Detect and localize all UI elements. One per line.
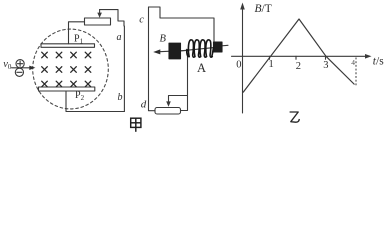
- solenoid winding A: [187, 40, 214, 57]
- svg-text:c: c: [139, 15, 144, 26]
- wire bottom to P2: [66, 91, 124, 112]
- svg-text:B/T: B/T: [255, 3, 272, 15]
- rheostat wiper arrow (middle): [166, 101, 171, 106]
- svg-text:B: B: [160, 34, 167, 45]
- negative charge symbol: [15, 68, 23, 76]
- svg-text:0: 0: [236, 60, 241, 71]
- svg-text:2: 2: [296, 61, 301, 72]
- rheostat wiper arrow: [97, 10, 102, 18]
- graph axes: [232, 3, 372, 114]
- field crosses grid: [42, 52, 91, 87]
- svg-text:d: d: [141, 98, 147, 110]
- rheostat R2 body: [155, 108, 181, 115]
- tick t=3: [325, 56, 327, 59]
- solenoid right pole piece: [214, 42, 223, 52]
- wire top with jog: [149, 7, 215, 43]
- svg-text:b: b: [118, 92, 123, 103]
- svg-text:4: 4: [351, 58, 355, 67]
- dashed drop line at t=4: [355, 58, 357, 87]
- middle circuit wires: [149, 7, 229, 114]
- svg-text:1: 1: [269, 59, 274, 70]
- tick t=1: [269, 56, 271, 59]
- wire wiper branch: [169, 96, 188, 102]
- svg-text:t/s: t/s: [373, 56, 384, 68]
- dashed field boundary circle: [33, 29, 109, 109]
- solenoid core axis + B arrow: [153, 45, 228, 54]
- t axis: [232, 55, 367, 57]
- svg-text:a: a: [117, 32, 122, 43]
- plate P1: [41, 44, 95, 48]
- wire rheostat wiper to node a: [100, 10, 124, 26]
- particle velocity arrow: [12, 66, 36, 70]
- svg-text:v0: v0: [3, 59, 12, 71]
- wire right side a-b: [123, 26, 125, 112]
- solenoid left pole piece: [169, 43, 181, 59]
- svg-text:P1: P1: [74, 34, 84, 46]
- positive charge symbol: [16, 60, 24, 68]
- wire P1 to resistor: [69, 22, 85, 44]
- figure label yi (乙): [290, 112, 300, 122]
- B axis: [242, 8, 244, 113]
- B(t) triangular waveform: [243, 19, 355, 93]
- plate P2: [39, 87, 95, 91]
- svg-text:3: 3: [323, 60, 328, 71]
- figure label jia (甲): [131, 118, 141, 132]
- wire coil left lead down: [181, 54, 188, 111]
- resistor R (rheostat body): [85, 18, 111, 25]
- tick t=2: [295, 56, 297, 59]
- wire c-d left side: [149, 7, 156, 111]
- svg-text:P2: P2: [75, 90, 85, 102]
- svg-text:A: A: [197, 61, 206, 75]
